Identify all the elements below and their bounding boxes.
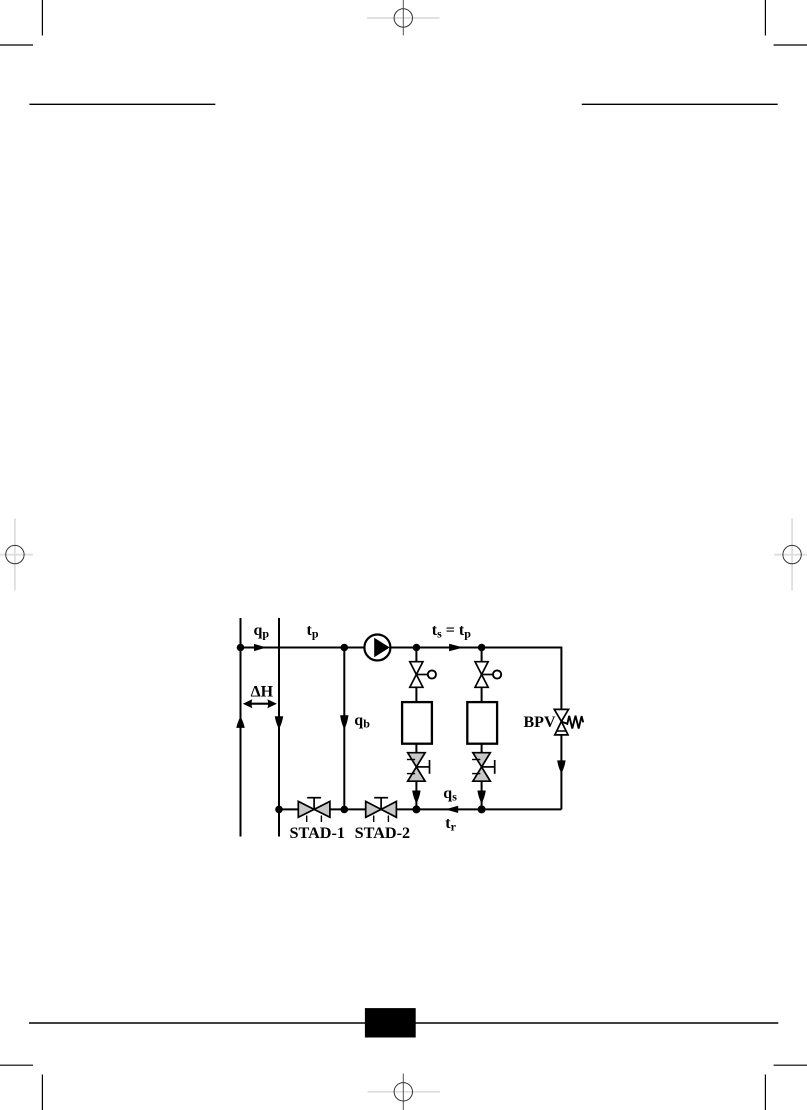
node E branch-2 bottom [478,805,486,813]
footer page-number box [365,1008,416,1037]
flow arrow down branch-2 into return [477,791,485,804]
svg-text:tr: tr [445,815,456,834]
BPV spring [561,716,583,729]
flow arrow down BPV branch [557,760,565,773]
crop mark top-right horizontal [774,44,807,46]
svg-text:BPV: BPV [524,714,556,731]
flow arrow up on supply riser [236,717,244,728]
svg-text:ts = tp: ts = tp [432,622,471,641]
flow arrow q_s left [445,806,458,813]
wire: top supply pipe [241,648,562,810]
node F return riser junction [275,806,283,814]
wire: branch-2 pipe [481,648,483,703]
registration mark top-center [367,0,440,36]
svg-text:STAD-2: STAD-2 [355,824,410,842]
node B branch-1 top [413,644,421,652]
wire: bottom return pipe [279,808,561,810]
control valve V2 (two-way valve with actuator) [475,662,501,688]
node H bypass top [341,644,349,652]
balancing valve TBV-1 below load 1 [407,753,430,782]
balancing valve STAD-2 [366,798,397,822]
svg-text:qs: qs [443,785,457,804]
svg-text:STAD-1: STAD-1 [290,824,345,842]
svg-text:qb: qb [354,712,370,731]
node D branch-1 bottom [412,805,420,813]
registration mark left-middle [0,519,33,591]
flow arrow down on bypass q_b [340,715,348,729]
crop mark bottom-left horizontal [0,1064,33,1066]
node C branch-2 top [478,644,486,652]
svg-text:qp: qp [254,622,270,641]
control valve V1 (two-way valve with actuator) [410,662,436,688]
balancing valve STAD-1 [298,798,330,822]
flow arrow t_s right [449,644,463,652]
balancing valve TBV-2 below load 2 [472,753,495,782]
registration mark right-middle [774,519,807,591]
crop mark top-left horizontal [0,44,33,46]
flow arrow down on return riser [275,716,283,729]
crop mark bottom-left vertical [41,1075,43,1110]
node A supply tap [237,644,245,652]
flow arrow q_p right [254,644,267,651]
crop mark top-right vertical [764,0,766,36]
pump P1 [364,635,390,661]
flow arrow down branch-1 into return [412,791,420,804]
BPV relief valve [554,709,583,735]
svg-text:tp: tp [307,622,319,641]
registration mark bottom-center [368,1074,441,1110]
node G bypass bottom [341,806,349,814]
load L1 (terminal unit) [402,702,432,744]
load L2 (terminal unit) [467,702,497,744]
wire: return riser (second vertical) [278,618,280,837]
svg-text:ΔH: ΔH [251,683,274,700]
crop mark top-left vertical [41,0,43,36]
wire: supply riser (left vertical) [240,618,242,837]
delta-H double arrow [243,699,277,708]
crop mark bottom-right horizontal [774,1064,807,1066]
header rule right [582,103,778,105]
header rule left [29,103,215,105]
footer rule [29,1022,778,1024]
wire: bypass pipe q_b [343,648,345,810]
wire: branch-1 pipe [415,648,417,703]
crop mark bottom-right vertical [764,1075,766,1110]
